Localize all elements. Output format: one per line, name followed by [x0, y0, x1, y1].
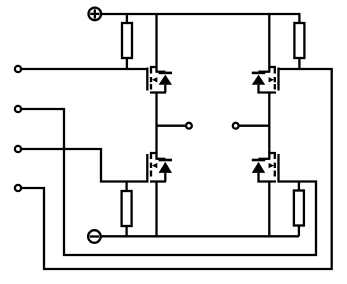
wire Q3 source to bottom rail: [155, 182, 157, 237]
wire stub R4 top: [298, 182, 300, 191]
diode D1 top jog: [156, 71, 166, 73]
transistor Q2 channel: [274, 66, 276, 90]
wire stub R3 top: [125, 182, 127, 192]
+ supply terminal: [89, 8, 102, 21]
diode D2 cathode bar: [252, 72, 265, 75]
transistor Q4 arrow: [269, 163, 274, 168]
terminal T2: [15, 106, 21, 112]
wire stub R2 bottom: [298, 58, 300, 69]
resistor R1: [122, 23, 132, 58]
wire T3 to Q3 gate: [21, 149, 148, 182]
transistor Q3 gate bar: [146, 154, 148, 183]
transistor Q3 arrow: [152, 163, 157, 168]
terminal T3: [15, 146, 21, 152]
transistor Q4 channel: [274, 152, 276, 177]
transistor Q1 drain bend: [150, 14, 158, 72]
transistor Q3 channel: [150, 152, 152, 177]
diode D4 bottom lead: [257, 173, 259, 182]
diode D2 top jog: [258, 71, 270, 73]
diode D3 triangle: [159, 162, 172, 173]
diode D1 triangle: [159, 75, 172, 85]
terminal T1: [15, 66, 21, 72]
bottom rail wire: [101, 235, 299, 237]
wire stub R1 bottom: [126, 58, 128, 69]
transistor Q4 gate bar: [277, 154, 279, 183]
diode D4 triangle: [252, 162, 265, 173]
wire Q1 source to Q3 drain (left bridge midpoint): [155, 93, 157, 154]
transistor Q1 arrow: [152, 77, 157, 82]
transistor Q1 channel: [150, 66, 152, 90]
transistor Q2 arrow: [269, 77, 274, 82]
wire stub R1 top: [126, 14, 128, 23]
wire T4 to Q2 gate (outer loop): [21, 69, 332, 269]
diode D3 bottom lead: [164, 173, 166, 182]
transistor Q2 source bend: [257, 91, 276, 93]
diode D3 cathode bar: [159, 159, 172, 162]
transistor Q3 source bend: [150, 180, 166, 182]
wire left output tap: [157, 125, 186, 127]
diode D2 triangle: [252, 75, 265, 85]
terminal OUT-L: [186, 123, 192, 129]
transistor Q1 gate bar: [146, 68, 148, 91]
transistor Q4 source bend: [257, 180, 276, 182]
diode D1 bottom lead: [164, 85, 166, 93]
terminal OUT-R: [233, 123, 239, 129]
transistor Q2 drain bend: [268, 14, 276, 72]
diode D3 top jog: [156, 158, 166, 160]
transistor Q4 drain bend: [268, 153, 276, 159]
diode D1 cathode bar: [159, 72, 172, 75]
wire right output tap: [239, 125, 269, 127]
diode D2 bottom lead: [257, 85, 259, 93]
resistor R3: [122, 191, 132, 226]
- supply terminal: [88, 230, 101, 243]
diode D4 top jog: [258, 158, 270, 160]
wire stub R4 bottom: [298, 226, 300, 237]
transistor Q2 gate bar: [277, 68, 279, 91]
wire Q4 source to bottom rail: [268, 182, 270, 237]
resistor R2: [294, 23, 304, 58]
wire T1 to Q1 gate: [21, 68, 148, 70]
terminal T4: [15, 185, 21, 191]
resistor R4: [294, 191, 304, 226]
transistor Q3 drain bend: [150, 153, 158, 159]
diode D4 cathode bar: [252, 159, 265, 162]
wire T2 to Q4 gate (inner loop): [21, 109, 316, 255]
transistor Q1 source bend: [150, 91, 166, 93]
top rail wire from + to top-right resistor: [101, 14, 299, 23]
wire stub R3 bottom: [125, 226, 127, 236]
wire Q2 source to Q4 drain (right bridge midpoint): [268, 93, 270, 154]
